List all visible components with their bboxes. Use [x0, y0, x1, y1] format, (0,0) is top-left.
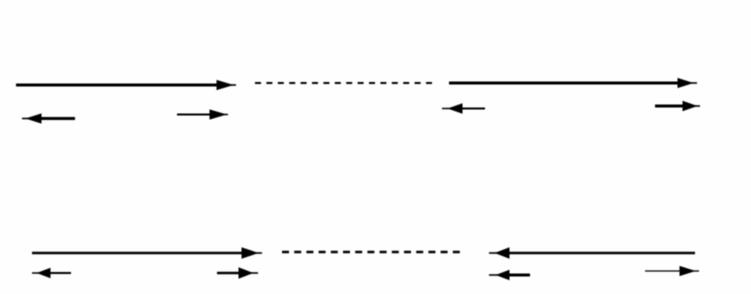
small arrow bottom row 3 (left-pointing) — [489, 271, 530, 280]
long arrow top-left (right-pointing) — [16, 81, 236, 90]
dashed line bottom — [282, 251, 460, 254]
small arrow top row 3 (left-pointing) — [442, 104, 485, 113]
small arrow top row 1 (left-pointing, far left) — [22, 114, 75, 123]
dashed line top — [255, 82, 432, 84]
small arrow bottom row 4 (right-pointing, thin, far right) — [645, 267, 699, 276]
small arrow bottom row 1 (left-pointing, far left) — [32, 269, 71, 278]
long arrow bottom-left (right-pointing) — [32, 248, 262, 258]
small arrow top row 4 (right-pointing, far right) — [655, 102, 700, 111]
small arrow bottom row 2 (right-pointing) — [217, 268, 258, 278]
small arrow top row 2 (right-pointing) — [177, 110, 228, 119]
long arrow bottom-right (left-pointing) — [489, 248, 695, 258]
long arrow top-right (right-pointing) — [449, 79, 697, 88]
